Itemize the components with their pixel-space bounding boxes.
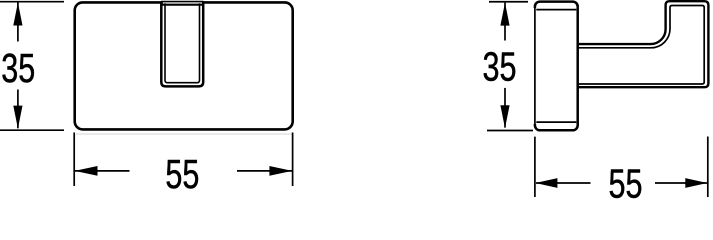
dim 35 right: up arrowhead [500, 3, 509, 26]
dim 55 left: dimension line right stub [237, 170, 292, 172]
hook arm outer outline [578, 1, 709, 87]
dim 35 right: top extension line [489, 1, 528, 3]
svg-text:55: 55 [609, 160, 643, 200]
dim 35 left: dimension line lower stub [17, 90, 19, 129]
wall plate inner top edge line [536, 9, 576, 11]
hook body front outline [75, 2, 293, 129]
dim 55 right: right extension line [707, 137, 709, 198]
hook arm inner contour [578, 6, 705, 85]
slot far-edge top line [161, 1, 204, 3]
wall plate outline [535, 2, 578, 131]
dim 35 left: up arrowhead [13, 3, 22, 26]
svg-text:35: 35 [1, 45, 35, 91]
slot inner contour [165, 3, 200, 83]
dim 55 left: right extension line [292, 133, 294, 187]
dim 35 right: dimension line upper stub [504, 3, 506, 41]
svg-text:55: 55 [165, 151, 199, 197]
svg-text:35: 35 [483, 43, 517, 89]
dim 55 right: dimension line left stub [536, 182, 591, 184]
dim 55 right: left extension line [534, 137, 536, 197]
dim 35 left: down arrowhead [13, 106, 22, 129]
dim 35 right: bottom extension line [487, 130, 533, 132]
dim 35 left: dimension line upper stub [17, 3, 19, 42]
dim 55 right: right arrowhead [685, 178, 707, 188]
dim 55 left: dimension line left stub [75, 170, 130, 172]
wall plate left edge thinned [533, 8, 536, 124]
dim 35 right: down arrowhead [500, 105, 509, 128]
dim 35 left: top extension line [0, 1, 64, 3]
dim 55 right: dimension line right stub [655, 182, 707, 184]
dim 55 left: right arrowhead [269, 166, 292, 176]
dim 35 left: bottom extension line [0, 129, 64, 131]
dim 55 left: left arrowhead [75, 166, 98, 176]
dim 55 right: left arrowhead [535, 178, 557, 188]
dim 35 right: dimension line lower stub [504, 88, 506, 128]
dim 55 left: left extension line [73, 133, 75, 187]
faint shadow line under front view [76, 133, 292, 135]
wall plate inner bottom edge line [536, 121, 576, 123]
slot inner top edge line [162, 4, 203, 6]
slot top white knockout [163, 0, 202, 6]
slot outer contour [161, 1, 203, 86]
